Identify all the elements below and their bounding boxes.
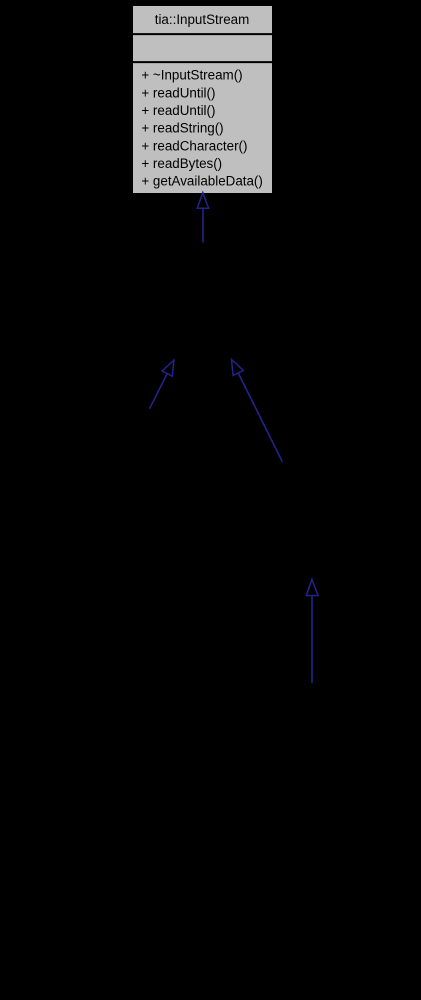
svg-text:+ readCharacter(): + readCharacter(): [141, 138, 247, 153]
svg-text:+ getAvailableData(): + getAvailableData(): [141, 174, 262, 189]
svg-text:+ readBytes(): + readBytes(): [141, 156, 222, 171]
inheritance arrow 4 shaft (bottom hidden class): [311, 596, 313, 684]
inheritance arrow 2 shaft (lower-left hidden class): [150, 374, 168, 409]
svg-text:+ readUntil(): + readUntil(): [141, 103, 215, 118]
inheritance arrow 1 shaft (hidden derived class to InputStream): [202, 208, 204, 242]
divider below title: [133, 33, 273, 35]
svg-text:+ ~InputStream(): + ~InputStream(): [141, 68, 242, 83]
inheritance arrow 1 hollow head: [197, 193, 208, 209]
inheritance arrow 4 hollow head: [306, 580, 318, 596]
svg-text:+ readUntil(): + readUntil(): [141, 85, 215, 100]
class box tia::InputStream: [133, 6, 273, 194]
inheritance arrow 3 hollow head: [232, 360, 244, 376]
svg-text:tia::InputStream: tia::InputStream: [155, 12, 250, 27]
svg-text:+ readString(): + readString(): [141, 121, 223, 136]
inheritance arrow 2 hollow head: [162, 360, 174, 376]
inheritance arrow 3 shaft (lower-right hidden class): [238, 373, 282, 462]
divider below attributes: [133, 61, 273, 63]
